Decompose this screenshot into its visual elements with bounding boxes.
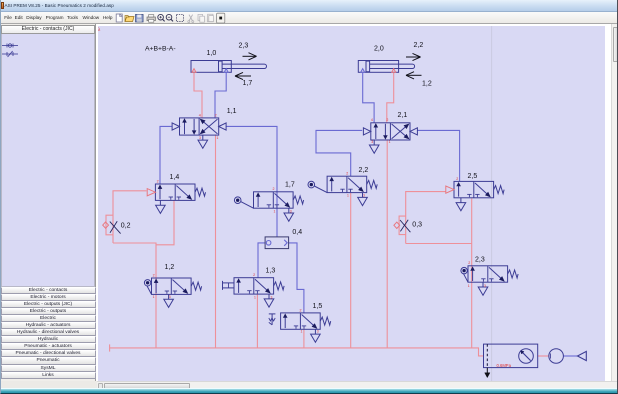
svg-text:3: 3 (371, 140, 373, 144)
valve 2,1 right pilot (410, 128, 417, 135)
air service unit with pressure gauge (484, 344, 538, 368)
circuit sequence label A+B+B-A- (145, 46, 176, 53)
valve 1,4 port 2 number (157, 179, 159, 183)
valve 1,4 spring (195, 188, 206, 196)
wire valve 1,3 port 1 to pressure rail (red) (256, 294, 258, 348)
port numbers 1 and 3 markings (153, 136, 486, 333)
valve 2,3 label (475, 256, 485, 263)
valve 1,2 body (152, 278, 192, 294)
svg-text:3: 3 (271, 295, 273, 299)
svg-text:1,7: 1,7 (243, 80, 253, 87)
svg-text:1: 1 (347, 194, 349, 198)
wire valve 1,1 port 1 supply riser to pressure rail (red) (215, 135, 217, 348)
valve 1,1 body (180, 118, 219, 135)
svg-text:1,5: 1,5 (313, 303, 323, 310)
valve 1,5 port 2 number (300, 308, 302, 312)
valve 1,3 spring (274, 282, 285, 290)
svg-text:3: 3 (290, 209, 292, 213)
shut-off valve 0,2 symbol (103, 221, 121, 233)
wire valve 2,1 port 1 supply riser to pressure rail (red) (386, 139, 388, 348)
valve 1,4 exhaust port 3 (156, 200, 166, 213)
wire shut-off valve 0,2 bypass loop (red) (106, 215, 113, 235)
valve 1,3 exhaust port 3 (264, 294, 274, 307)
cylinder 1,0 body (191, 61, 266, 73)
svg-text:2,3: 2,3 (475, 256, 485, 263)
valve 1,2 label (165, 264, 175, 271)
valve 1,7 port 2 number (273, 187, 275, 191)
cylinder 1,0 label (207, 50, 217, 57)
valve 2,2 port 2 number (346, 172, 348, 176)
svg-text:1,2: 1,2 (422, 81, 432, 88)
valve 1,2 exhaust port 3 (164, 294, 174, 307)
motion arrow 2,2 (extend) for cylinder 2,0 (406, 42, 423, 61)
valve 2,5 actuator (446, 186, 454, 193)
valve 1,4 label (170, 174, 180, 181)
valve 2,1 body (371, 123, 410, 140)
wire cylinder 2,0 rod port to valve 2,1 port 2 (red) (387, 73, 394, 123)
wire cylinder 2,0 cap port to valve 2,1 port 4 (blue) (363, 73, 374, 123)
valve 1,7 actuator (234, 197, 253, 208)
wire valve 1,1 left pilot from valve 1,4 port 2 (blue) (160, 126, 172, 183)
valve 2,2 body (327, 176, 367, 192)
wire shut-off valve 0,3 bypass loop (red) (399, 216, 406, 235)
svg-text:4: 4 (371, 118, 373, 122)
motion arrow 1,2 (retract) for cylinder 2,0 (406, 72, 432, 88)
valve 2,3 exhaust port 3 (478, 282, 488, 295)
valve 2,5 spring (494, 186, 505, 194)
cylinder 2,0 body (358, 61, 414, 73)
svg-text:2,2: 2,2 (359, 167, 369, 174)
valve 1,5 body (281, 313, 321, 329)
svg-text:2,0: 2,0 (374, 45, 384, 52)
valve 1,5 spring (320, 317, 331, 325)
cylinder 1,0 left port (192, 69, 196, 73)
motion arrow 2,3 (extend) for cylinder 1,0 (239, 42, 257, 60)
valve 2,5 exhaust port 3 (456, 198, 466, 211)
valve 1,4 actuator (147, 189, 155, 196)
wire cylinder 1,0 cap port to valve 1,1 port 4 (red) (194, 73, 202, 118)
wire shuttle valve 0,4 left inlet to valve 1,3 port 2 (blue) (258, 243, 265, 278)
cylinder 2,0 label (374, 45, 384, 52)
valve 2,2 label (359, 167, 369, 174)
air service unit drain arrow (485, 368, 490, 378)
wire cylinder 1,0 rod port to valve 1,1 port 2 (blue) (215, 73, 226, 119)
svg-text:2: 2 (386, 118, 388, 122)
svg-text:2,2: 2,2 (414, 42, 424, 49)
svg-text:2,1: 2,1 (398, 112, 408, 119)
wire shut-off valve 0,2 to valve 1,2 port 2 (red) (113, 243, 156, 294)
wire valve 2,2 port 1 to pressure rail (red) (350, 192, 352, 348)
wire valve 2,1 left pilot from valve 2,2 port 2 (blue) (316, 130, 362, 176)
shut-off valve 0,3 symbol (394, 220, 411, 232)
page boundary line (491, 26, 493, 381)
svg-text:1,1: 1,1 (227, 108, 237, 115)
svg-text:1: 1 (389, 140, 391, 144)
svg-text:1,2: 1,2 (165, 264, 175, 271)
svg-text:3: 3 (169, 295, 171, 299)
intake silencer triangle (578, 351, 587, 360)
svg-text:2: 2 (157, 179, 159, 183)
valve 1,3 body (234, 278, 274, 294)
valve 1,3 port 2 number (253, 273, 255, 277)
valve 2,1 left pilot (363, 128, 370, 135)
svg-text:4: 4 (199, 113, 201, 117)
svg-text:1: 1 (217, 136, 219, 140)
svg-text:0,3: 0,3 (412, 221, 422, 228)
valve 2,2 spring (367, 180, 378, 188)
svg-text:3: 3 (199, 136, 201, 140)
valve 2,5 port 2 number (456, 177, 458, 181)
valve 1,7 label (285, 181, 295, 188)
wire through valve 1,7 ports (blue) (276, 192, 278, 208)
valve 1,5 exhaust port 3 (311, 329, 321, 342)
valve 2,3 spring (508, 270, 518, 278)
shuttle valve 0,4 label (292, 229, 302, 236)
wire junction to valve 1,4 port 1 (red) (156, 200, 174, 244)
valve 2,2 exhaust port 3 (358, 193, 368, 206)
origin marker (98, 27, 101, 32)
wire shut-off valve 0,3 to valve 2,3 port 2 junction (red) (406, 243, 472, 245)
valve 1,1 port numbers (199, 113, 217, 117)
svg-text:1: 1 (468, 284, 470, 288)
svg-text:2: 2 (215, 113, 217, 117)
shut-off valve 0,2 label (121, 222, 131, 229)
wire valve 2,1 right pilot from valve 2,5 port 2 (blue) (417, 130, 460, 181)
valve 1,2 port 2 number (153, 273, 155, 277)
wire valve 2,5 port 1 / valve 2,3 ports to pressure rail (red) (471, 198, 473, 348)
svg-text:2: 2 (300, 308, 302, 312)
valve 1,1 exhaust port 3 (198, 135, 208, 148)
wire shuttle valve 0,4 right inlet to valve 1,5 port 2 (blue) (289, 243, 304, 313)
valve 1,1 left pilot (172, 123, 179, 130)
valve 1,2 spring (191, 282, 202, 290)
svg-text:3: 3 (363, 194, 365, 198)
svg-text:3: 3 (317, 330, 319, 334)
svg-text:1,3: 1,3 (266, 268, 276, 275)
wire valve 1,2 port 1 to pressure rail (red) (155, 294, 157, 348)
valve 2,1 label (398, 112, 408, 119)
svg-text:2: 2 (456, 177, 458, 181)
motion arrow 1,7 (retract) for cylinder 1,0 (235, 72, 252, 87)
valve 2,3 body (468, 266, 508, 282)
valve 2,3 actuator (461, 267, 468, 282)
valve 2,5 label (468, 173, 478, 180)
svg-text:2: 2 (153, 273, 155, 277)
wire compressor to intake silencer (blue) (563, 355, 577, 357)
valve 1,1 label (227, 108, 237, 115)
svg-text:1: 1 (254, 295, 256, 299)
valve 1,3 label (266, 268, 276, 275)
svg-text:2,3: 2,3 (239, 42, 249, 49)
svg-text:2,5: 2,5 (468, 173, 478, 180)
svg-text:3: 3 (484, 284, 486, 288)
valve 1,7 exhaust port 3 (284, 208, 294, 221)
valve 1,2 actuator (144, 280, 151, 295)
pressure supply rail (red) (110, 344, 484, 356)
wire valve 1,7 port 1 to shuttle valve 0,4 outlet (blue) (276, 208, 278, 237)
valve 2,2 actuator (308, 181, 327, 192)
wire valve 1,5 port 1 to pressure rail (red) (303, 329, 305, 348)
valve 1,7 spring (293, 196, 304, 204)
valve 2,1 port numbers (371, 118, 389, 122)
svg-text:2: 2 (253, 273, 255, 277)
svg-text:A+B+B-A-: A+B+B-A- (145, 46, 176, 53)
svg-text:1: 1 (153, 295, 155, 299)
cylinder 1,0 right port (224, 69, 228, 73)
svg-text:0,4: 0,4 (292, 229, 302, 236)
svg-text:0,2: 0,2 (121, 222, 131, 229)
wire valve 1,1 right pilot from valve 1,7 port 2 (blue) (226, 126, 277, 191)
cylinder 2,0 right port (392, 69, 396, 73)
shut-off valve 0,3 label (412, 221, 422, 228)
svg-text:1: 1 (301, 330, 303, 334)
shuttle valve 0,4 body (265, 237, 289, 249)
svg-text:0.6MPa: 0.6MPa (497, 363, 512, 368)
valve 2,1 exhaust port 3 (369, 140, 379, 153)
air service unit pressure value label 0.6MPa (497, 363, 512, 368)
wire air service unit to compressor (red) (538, 355, 549, 357)
valve 1,7 body (254, 192, 294, 208)
wire valve 2,5 pilot through shut-off valve 0,3 (red) (406, 192, 446, 244)
svg-text:λ: λ (98, 27, 101, 32)
valve 1,4 body (155, 184, 195, 200)
svg-text:1,4: 1,4 (170, 174, 180, 181)
valve 1,1 right pilot (219, 123, 226, 130)
wire valve 1,4 pilot through shut-off valve 0,2 (red) (113, 191, 147, 243)
valve 2,3 port 2 number (468, 261, 470, 265)
svg-text:2: 2 (346, 172, 348, 176)
valve 1,3 actuator (223, 281, 235, 290)
svg-text:2: 2 (468, 261, 470, 265)
svg-text:1: 1 (274, 209, 276, 213)
svg-text:1,0: 1,0 (207, 50, 217, 57)
compressor / air source (549, 349, 564, 364)
svg-text:1,7: 1,7 (285, 181, 295, 188)
cylinder 2,0 left port (361, 69, 365, 73)
valve 2,5 body (454, 181, 494, 197)
svg-text:2: 2 (273, 187, 275, 191)
valve 1,5 actuator (269, 314, 276, 325)
valve 1,5 label (313, 303, 323, 310)
